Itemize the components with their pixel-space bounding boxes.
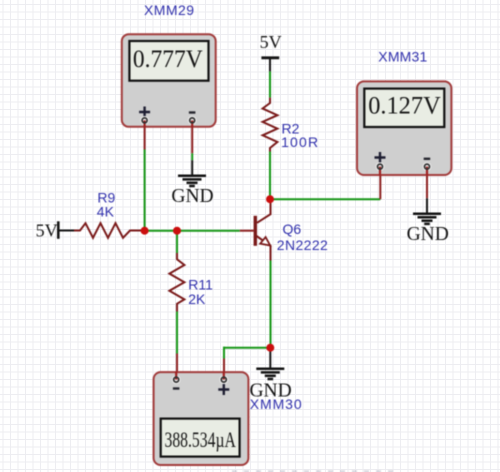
svg-text:2K: 2K [188, 291, 206, 307]
wire XMM31 minus terminal down to ground [426, 167, 428, 214]
svg-text:5V: 5V [36, 220, 58, 240]
wire base net horizontal [145, 230, 240, 232]
wire Q6 emitter down to emitter node [270, 261, 272, 348]
cut-off text fragments along bottom edge [232, 470, 396, 472]
wire R2 bottom to collector node [269, 152, 271, 200]
wire emitter node down to ground [269, 348, 271, 369]
svg-text:XMM31: XMM31 [378, 49, 427, 65]
wire base node down to R11 [176, 231, 178, 253]
svg-text:5V: 5V [260, 32, 282, 52]
resistor R11 [169, 253, 184, 312]
wire XMM29 minus terminal down to ground [191, 121, 193, 176]
svg-text:100R: 100R [281, 134, 318, 150]
multimeter XMM30 (ammeter, inverted) [154, 371, 249, 465]
junction node at base left (XMM29 +) [141, 227, 149, 235]
wire XMM30 plus terminal up and right to emitter node [223, 347, 270, 377]
wire XMM29 plus terminal down to base node [144, 121, 146, 231]
multimeter XMM31 [357, 81, 451, 175]
resistor R2 [263, 98, 278, 152]
svg-text:0.127V: 0.127V [368, 93, 441, 120]
svg-text:R11: R11 [188, 276, 213, 292]
power rail 5V top (source bar) [261, 58, 279, 72]
junction node at collector [266, 195, 274, 203]
svg-text:2N2222: 2N2222 [277, 237, 328, 253]
label R11 value 2K [188, 276, 213, 307]
power rail 5V left (source bar) [58, 221, 74, 239]
ground symbol right (XMM31 minus) [413, 214, 441, 224]
ground symbol bottom (emitter) [256, 369, 284, 379]
label Q6 value 2N2222 [277, 221, 328, 253]
ground symbol top (XMM29 minus) [178, 176, 206, 186]
svg-text:388.534µA: 388.534µA [165, 427, 236, 452]
svg-text:GND: GND [171, 186, 213, 207]
svg-text:0.777V: 0.777V [133, 46, 203, 73]
svg-text:GND: GND [407, 224, 449, 245]
multimeter XMM29 [122, 34, 216, 127]
svg-text:4K: 4K [97, 203, 115, 219]
transistor Q6 (NPN) [240, 200, 271, 261]
junction node at emitter [266, 344, 274, 352]
resistor R9 [74, 223, 145, 238]
wire R11 bottom to XMM30 minus terminal [176, 312, 178, 378]
label R2 value 100R [281, 120, 318, 150]
svg-text:XMM29: XMM29 [144, 2, 194, 18]
svg-text:Q6: Q6 [283, 221, 302, 237]
label R9 value 4K [97, 190, 116, 220]
wire 5V top to R2 [269, 71, 271, 97]
junction node at base / R11 [173, 227, 181, 235]
svg-text:XMM30: XMM30 [250, 396, 302, 412]
wire collector node to XMM31 plus terminal [270, 167, 380, 200]
